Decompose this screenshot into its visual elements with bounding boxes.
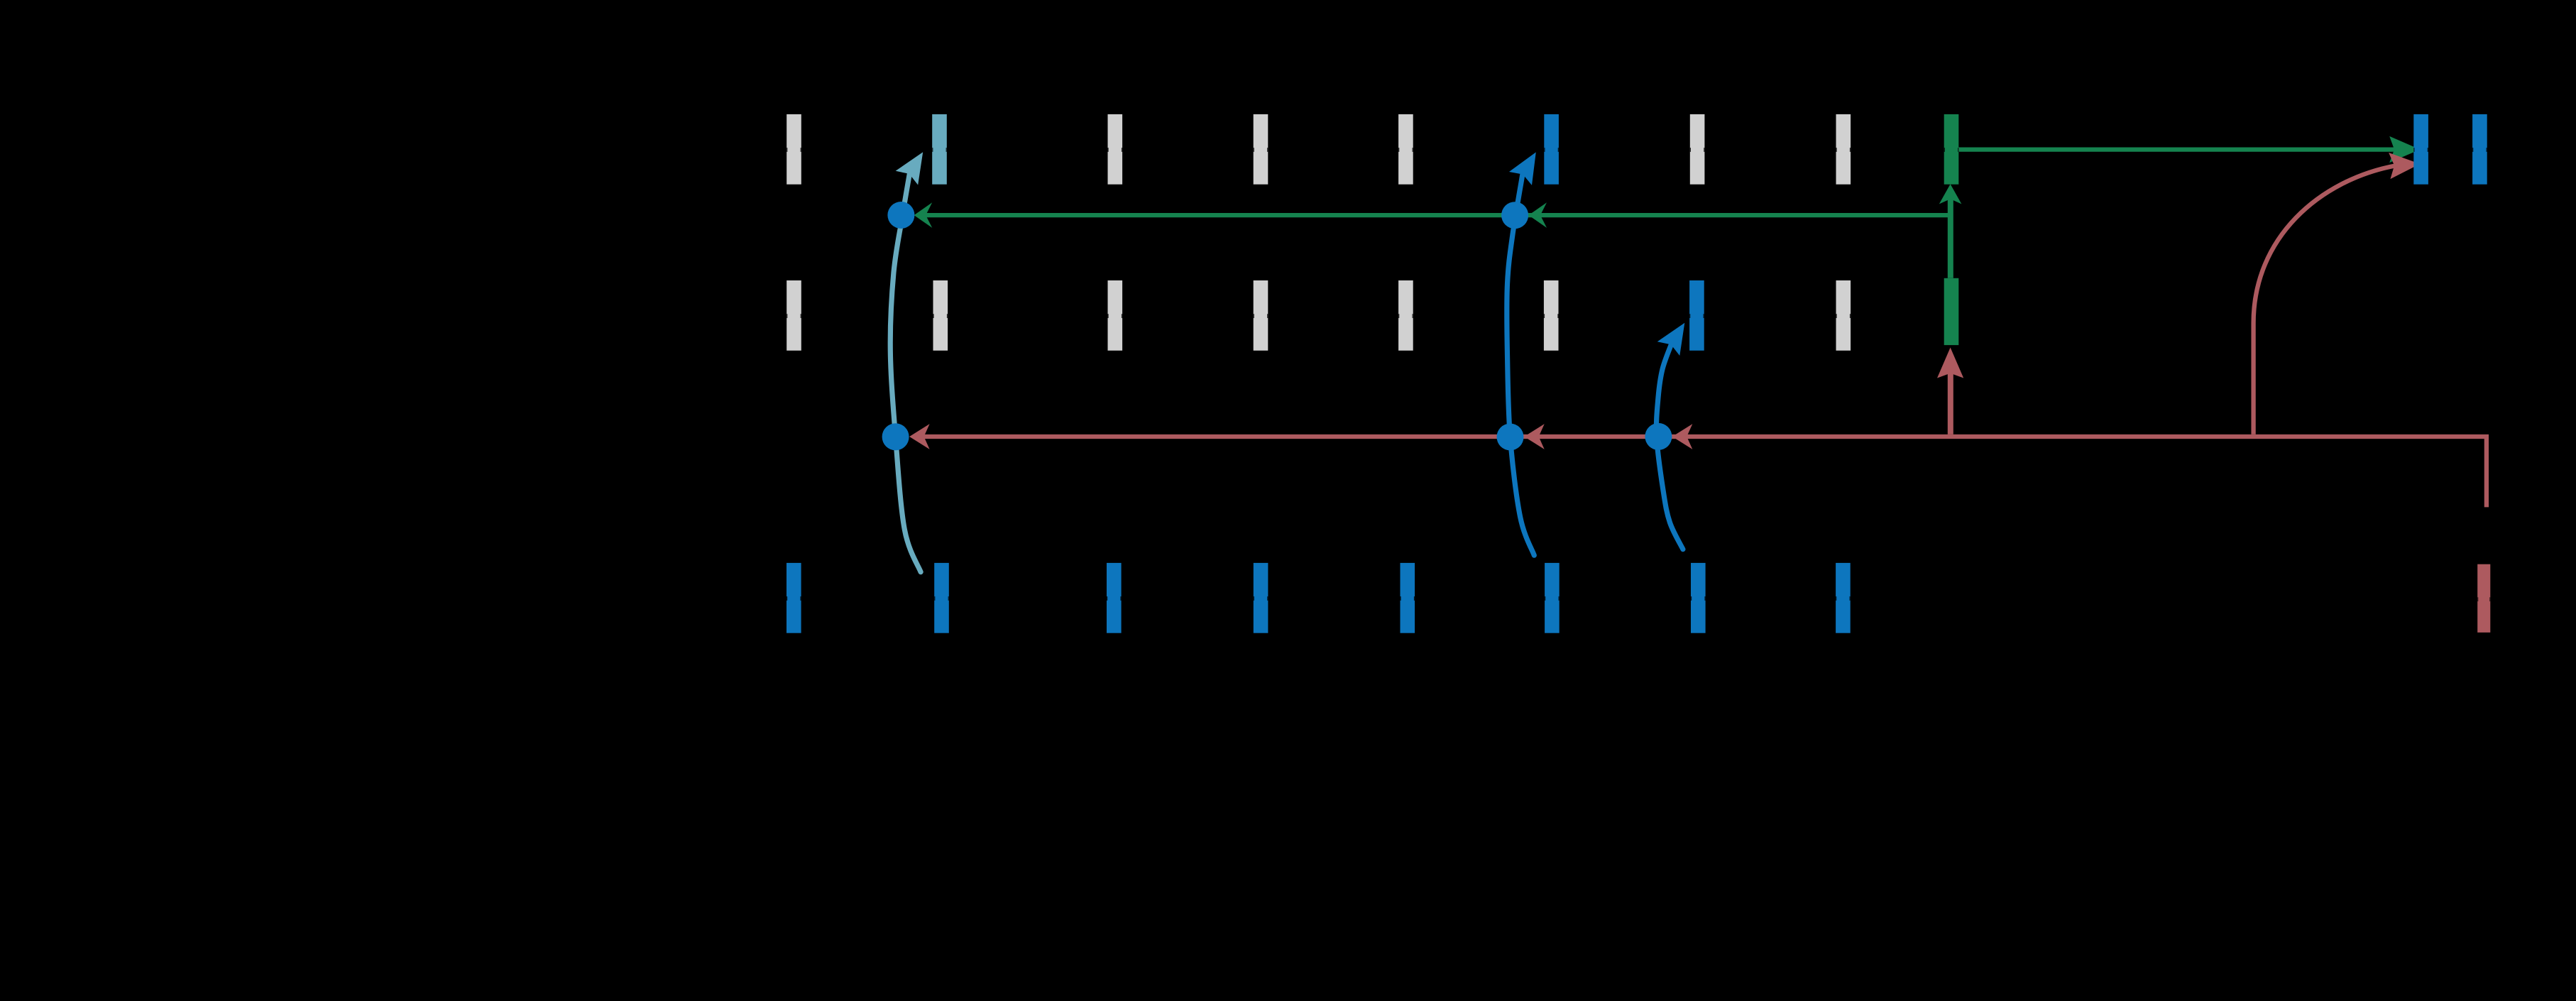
wire red vertical bbox=[1948, 369, 1953, 434]
blue tick bottom 5 bbox=[1401, 563, 1415, 633]
blue tick bottom 4 bbox=[1254, 563, 1268, 633]
wire blue curve 1 bbox=[1507, 174, 1535, 555]
gray tick top 3 bbox=[1254, 114, 1268, 185]
teal big arrowhead up-right bbox=[896, 145, 934, 185]
wire green top right bbox=[1956, 147, 2396, 151]
node dot D bbox=[1501, 202, 1528, 229]
gray tick mid 5 bbox=[1398, 280, 1413, 351]
node dot B bbox=[882, 423, 909, 450]
green arrowhead at dot D bbox=[1528, 202, 1547, 228]
red big arrowhead up to green mid tick bbox=[1937, 348, 1963, 378]
gray tick mid 7 bbox=[1836, 280, 1851, 351]
gray tick mid 1 bbox=[786, 280, 801, 351]
red arrowhead at dot E bbox=[1672, 424, 1693, 449]
blue tick bottom 3 bbox=[1107, 563, 1122, 633]
node dot C bbox=[1497, 424, 1524, 451]
wire red horizontal and right corner down bbox=[920, 437, 2487, 507]
teal tick top bbox=[932, 114, 947, 185]
wire green horizontal main bbox=[925, 213, 1951, 217]
green tick top bbox=[1944, 114, 1959, 185]
blue tick bottom 6 bbox=[1545, 563, 1560, 633]
gray tick mid 4 bbox=[1254, 280, 1268, 351]
blue tick bottom 2 bbox=[934, 563, 949, 633]
wire teal curve bbox=[890, 173, 921, 571]
gray tick top 1 bbox=[786, 114, 801, 185]
green arrowhead up to green tick bbox=[1939, 184, 1962, 204]
gray tick mid 2 bbox=[933, 280, 948, 351]
green big arrowhead into blue tick bbox=[2389, 136, 2420, 163]
blue tick top right 1 bbox=[2413, 114, 2428, 185]
red arrowhead at dot B bbox=[909, 424, 930, 449]
blue tick bottom 1 bbox=[786, 563, 801, 633]
gray tick mid 6 bbox=[1544, 280, 1559, 351]
green tick mid bbox=[1944, 278, 1959, 345]
gray tick top 4 bbox=[1398, 114, 1413, 185]
red arrowhead at dot C bbox=[1524, 424, 1545, 449]
wire green vertical bbox=[1948, 196, 1953, 278]
blue big arrowhead up-right 2 bbox=[1657, 316, 1696, 356]
blue tick top 1 bbox=[1544, 114, 1559, 185]
red big arrowhead into blue tick lower bbox=[2389, 151, 2421, 179]
blue tick bottom 7 bbox=[1691, 563, 1706, 633]
node dot E bbox=[1645, 423, 1672, 450]
gray tick top 5 bbox=[1690, 114, 1705, 185]
red tick bottom bbox=[2477, 564, 2490, 633]
gray tick top 2 bbox=[1108, 114, 1123, 185]
wire blue curve 2 bbox=[1656, 344, 1682, 549]
blue tick top right 2 bbox=[2472, 114, 2487, 185]
blue tick mid bbox=[1689, 280, 1704, 351]
node dot A bbox=[887, 202, 914, 229]
blue big arrowhead up-right 1 bbox=[1509, 146, 1547, 185]
wire red elbow bbox=[2254, 165, 2396, 434]
green arrowhead at dot A bbox=[914, 202, 933, 228]
gray tick mid 3 bbox=[1108, 280, 1123, 351]
blue tick bottom 8 bbox=[1836, 563, 1851, 633]
gray tick top 6 bbox=[1836, 114, 1851, 185]
